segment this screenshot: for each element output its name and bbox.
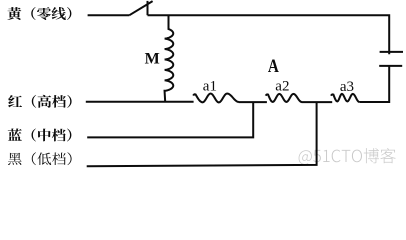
wire neutral left	[88, 14, 130, 16]
inductor a1	[193, 94, 239, 103]
label yellow neutral	[7, 7, 71, 20]
watermark 51CTO	[299, 148, 396, 165]
svg-text:a1: a1	[203, 78, 217, 94]
label blue mid	[8, 129, 72, 142]
wire capacitor to a3	[359, 66, 389, 102]
capacitor C1 top plate	[380, 51, 403, 53]
wire a1 to a2	[239, 101, 267, 103]
svg-text:a2: a2	[275, 79, 289, 95]
svg-text:a3: a3	[340, 79, 354, 95]
wire neutral top	[148, 15, 390, 54]
wire a2 to a3	[302, 101, 333, 103]
wire red high	[86, 101, 194, 103]
svg-text:M: M	[145, 50, 160, 67]
switch S1 blade	[129, 1, 152, 15]
node tap1 and wire blue mid	[87, 102, 253, 137]
inductor a3	[331, 94, 359, 102]
capacitor C1 bottom plate	[379, 65, 402, 67]
svg-text:A: A	[268, 57, 280, 77]
inductor a2	[266, 94, 302, 102]
node tap2 and wire black low	[87, 102, 317, 166]
switch S1 post	[147, 1, 149, 15]
label black low	[8, 152, 72, 165]
wire M tap	[168, 15, 170, 29]
motor winding M coil	[165, 15, 174, 102]
label red high	[8, 95, 71, 108]
